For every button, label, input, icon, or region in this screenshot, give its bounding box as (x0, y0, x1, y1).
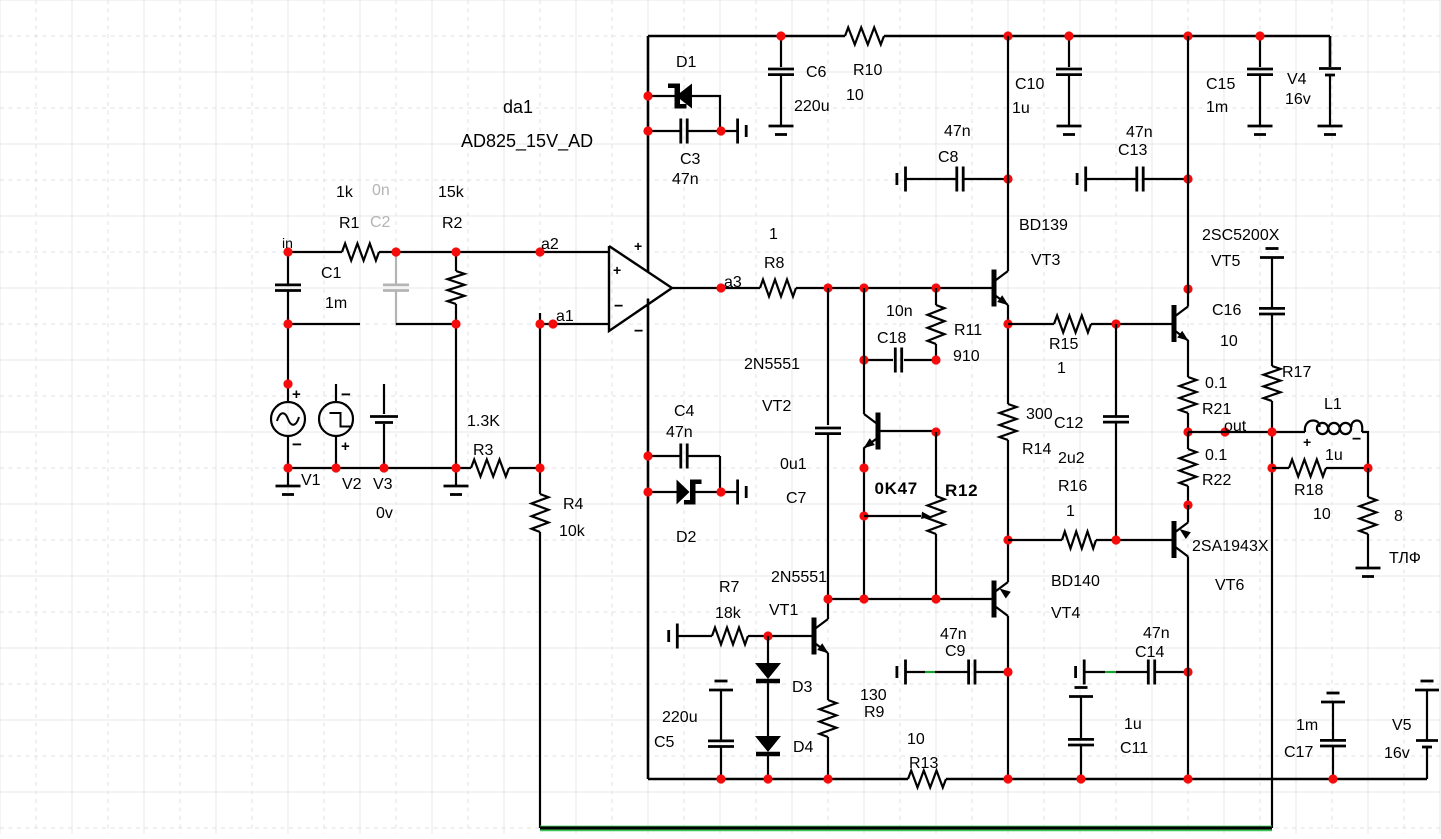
svg-text:0K47: 0K47 (875, 479, 918, 498)
wire (878, 430, 936, 432)
resistor R21 (1180, 375, 1232, 418)
svg-text:D1: D1 (676, 54, 697, 71)
node (1183, 774, 1192, 783)
node (1267, 427, 1276, 472)
node (391, 247, 400, 256)
svg-text:R8: R8 (764, 255, 785, 272)
svg-text:BD139: BD139 (1019, 217, 1068, 234)
node (643, 451, 725, 496)
resistor R load 8ohm (1360, 468, 1421, 568)
wire (863, 288, 865, 414)
svg-text:47n: 47n (666, 424, 693, 441)
svg-text:0u1: 0u1 (780, 456, 807, 473)
capacitor C18 (864, 303, 936, 373)
svg-text:V5: V5 (1392, 717, 1412, 734)
wire a2 (379, 251, 609, 253)
svg-text:da1: da1 (503, 97, 533, 117)
node (1111, 535, 1120, 544)
svg-text:R7: R7 (719, 579, 740, 596)
svg-text:R22: R22 (1202, 472, 1231, 489)
svg-text:C9: C9 (945, 643, 966, 660)
node (1111, 319, 1120, 328)
node (1183, 284, 1192, 293)
capacitor C11 (1068, 688, 1148, 780)
wire (1329, 36, 1332, 67)
svg-text:1m: 1m (1296, 717, 1318, 734)
diode D3 (755, 636, 813, 736)
source V1 (271, 384, 321, 489)
svg-text:2SA1943X: 2SA1943X (1192, 538, 1269, 555)
svg-text:R21: R21 (1202, 401, 1231, 418)
wire a1 vertical (539, 324, 541, 468)
svg-text:15k: 15k (438, 184, 465, 201)
node (1003, 174, 1192, 183)
node (823, 594, 940, 603)
svg-text:10: 10 (907, 731, 925, 748)
wire (1007, 564, 1009, 582)
battery V4 (1285, 69, 1341, 127)
svg-text:−: − (1352, 431, 1361, 448)
svg-text:a1: a1 (556, 308, 574, 325)
svg-text:2u2: 2u2 (1058, 450, 1085, 467)
svg-text:1m: 1m (325, 295, 347, 312)
diode D2 (648, 480, 702, 547)
resistor R11 (928, 288, 983, 365)
ground (1057, 126, 1082, 135)
svg-text:1u: 1u (1325, 447, 1343, 464)
node (1003, 774, 1085, 783)
op-amp da1 AD825 (461, 97, 672, 340)
svg-text:+: + (613, 262, 621, 278)
svg-text:47n: 47n (1143, 625, 1170, 642)
svg-text:−: − (292, 435, 302, 454)
svg-text:1u: 1u (1124, 716, 1142, 733)
node out (1183, 418, 1246, 437)
wire (1007, 305, 1009, 404)
svg-text:2N5551: 2N5551 (771, 569, 827, 586)
source V2 (319, 384, 362, 493)
svg-text:ТЛФ: ТЛФ (1389, 550, 1421, 567)
wire V+ rail top right (884, 35, 1330, 38)
ground (1318, 126, 1343, 135)
battery V5 (1384, 681, 1439, 779)
wire (396, 323, 456, 325)
svg-text:D3: D3 (792, 679, 813, 696)
resistor R3 (467, 413, 509, 477)
wire (1271, 401, 1273, 828)
svg-text:10k: 10k (559, 523, 586, 540)
wire a3 (672, 287, 760, 289)
svg-text:18k: 18k (715, 605, 742, 622)
wire (719, 456, 721, 492)
svg-text:VT2: VT2 (762, 398, 791, 415)
wire (1187, 432, 1189, 449)
resistor R14 (1000, 404, 1053, 458)
svg-text:C11: C11 (1120, 740, 1148, 757)
svg-text:0.1: 0.1 (1205, 375, 1227, 392)
potentiometer R12 (864, 479, 978, 599)
wire out (1188, 431, 1305, 433)
capacitor C13 (1077, 124, 1188, 192)
capacitor C8 (897, 123, 1008, 192)
capacitor C2 (disabled) (370, 182, 409, 325)
node (1003, 319, 1012, 328)
wire (1096, 539, 1173, 541)
svg-text:C18: C18 (877, 330, 906, 347)
wire (935, 432, 937, 496)
svg-text:BD140: BD140 (1051, 573, 1100, 590)
svg-text:130: 130 (860, 687, 887, 704)
transistor VT5 2SC5200X (1174, 227, 1280, 342)
capacitor C16 (1212, 258, 1285, 367)
svg-text:8: 8 (1394, 508, 1403, 525)
svg-text:47n: 47n (944, 123, 971, 140)
svg-text:R2: R2 (442, 215, 463, 232)
wire (1008, 323, 1054, 325)
wire (1187, 271, 1189, 307)
wire (827, 599, 829, 619)
svg-text:V1: V1 (301, 472, 321, 489)
battery terminal (669, 624, 678, 649)
svg-text:+: + (292, 386, 301, 403)
resistor R4 (532, 468, 586, 828)
svg-text:R11: R11 (954, 322, 982, 339)
wire (1187, 36, 1189, 271)
node (643, 91, 725, 135)
ground (1248, 126, 1273, 135)
resistor R15 (1049, 316, 1091, 378)
svg-text:V4: V4 (1287, 71, 1307, 88)
svg-text:1u: 1u (1012, 100, 1030, 117)
wire (455, 324, 457, 468)
wire left rail V- pin stub (647, 299, 650, 780)
node (931, 427, 940, 436)
resistor R9 (820, 687, 887, 779)
wire green net (540, 825, 1272, 831)
svg-text:1: 1 (769, 226, 778, 243)
wire (696, 491, 722, 493)
node (283, 379, 292, 388)
capacitor C17 (1284, 693, 1346, 779)
capacitor C7 (780, 288, 841, 599)
wire (828, 598, 993, 600)
wire (796, 287, 993, 289)
svg-text:VT6: VT6 (1215, 577, 1244, 594)
resistor R13 (907, 731, 946, 788)
svg-text:VT3: VT3 (1031, 252, 1060, 269)
svg-text:10: 10 (1313, 506, 1331, 523)
svg-text:C2: C2 (370, 214, 391, 231)
svg-text:+: + (634, 238, 642, 254)
battery terminal (721, 119, 746, 144)
svg-text:C5: C5 (654, 734, 675, 751)
resistor R7 (677, 579, 768, 645)
resistor R8 (760, 226, 796, 297)
battery terminal (1260, 249, 1284, 258)
svg-text:R12: R12 (945, 481, 978, 500)
svg-text:C12: C12 (1054, 415, 1083, 432)
svg-text:1m: 1m (1206, 99, 1228, 116)
node (1363, 463, 1372, 472)
svg-text:1.3K: 1.3K (467, 413, 500, 430)
node (1183, 500, 1192, 509)
svg-text:R1: R1 (339, 215, 360, 232)
resistor R2 (438, 184, 465, 324)
svg-text:R10: R10 (853, 62, 882, 79)
svg-text:R9: R9 (864, 704, 885, 721)
wire (863, 448, 865, 600)
svg-text:VT5: VT5 (1211, 253, 1240, 270)
svg-text:16v: 16v (1285, 91, 1311, 108)
node (283, 463, 544, 472)
svg-text:+: + (341, 438, 350, 455)
wire left rail upper (647, 36, 650, 272)
node a2 (535, 236, 558, 257)
wire (827, 653, 829, 700)
resistor R16 (1058, 478, 1096, 549)
svg-text:−: − (341, 385, 351, 404)
svg-text:C3: C3 (680, 151, 701, 168)
svg-text:R4: R4 (563, 496, 584, 513)
transistor VT6 2SA1943X (1174, 521, 1269, 594)
wire (692, 96, 720, 131)
wire (509, 467, 540, 469)
ground (444, 468, 469, 495)
wire (1091, 323, 1173, 325)
node (1003, 535, 1012, 544)
resistor R22 (1180, 447, 1232, 489)
svg-text:R17: R17 (1282, 364, 1311, 381)
capacitor C5 (654, 681, 734, 779)
wire (1187, 486, 1189, 506)
svg-text:VT4: VT4 (1051, 605, 1080, 622)
svg-text:a3: a3 (724, 274, 742, 291)
svg-text:47n: 47n (1126, 124, 1153, 141)
svg-text:0.1: 0.1 (1205, 447, 1227, 464)
svg-text:C4: C4 (674, 403, 695, 420)
wire bottom rail right (946, 778, 1427, 781)
svg-text:C6: C6 (806, 64, 827, 81)
svg-text:0n: 0n (372, 182, 390, 199)
wire a1 stub (539, 313, 541, 324)
capacitor C6 (768, 36, 830, 126)
ground (1356, 568, 1381, 577)
node (451, 319, 460, 328)
svg-text:220u: 220u (662, 709, 698, 726)
battery terminal (721, 480, 746, 505)
node (859, 355, 940, 364)
wire (1187, 505, 1189, 523)
svg-text:R15: R15 (1049, 336, 1078, 353)
node (716, 774, 832, 783)
resistor R10 (845, 28, 884, 105)
node (823, 283, 940, 292)
node (283, 319, 292, 328)
svg-text:D2: D2 (676, 529, 697, 546)
transistor VT4 BD140 (994, 573, 1100, 622)
resistor R17 (1264, 364, 1312, 401)
wire (1007, 440, 1009, 564)
node (1183, 667, 1192, 676)
svg-text:V2: V2 (342, 476, 362, 493)
svg-text:AD825_15V_AD: AD825_15V_AD (461, 131, 593, 152)
svg-text:2SC5200X: 2SC5200X (1202, 227, 1280, 244)
node (451, 247, 460, 256)
capacitor C14 (1076, 625, 1188, 685)
svg-text:V3: V3 (373, 476, 393, 493)
diode D4 (755, 736, 814, 779)
wire a1 (540, 323, 609, 325)
ground (276, 468, 301, 495)
wire (1007, 36, 1009, 271)
svg-text:C15: C15 (1206, 76, 1235, 93)
wire (1362, 432, 1368, 468)
svg-text:910: 910 (953, 348, 980, 365)
wire net in (288, 251, 342, 253)
svg-text:47n: 47n (940, 626, 967, 643)
svg-text:R13: R13 (909, 755, 938, 772)
wire (288, 323, 360, 325)
wire ground bus (288, 467, 471, 469)
svg-text:10: 10 (1220, 333, 1238, 350)
svg-text:C14: C14 (1135, 644, 1164, 661)
svg-text:47n: 47n (672, 171, 699, 188)
svg-text:C1: C1 (321, 265, 342, 282)
wire V+ rail top (648, 35, 845, 38)
svg-text:16v: 16v (1384, 745, 1410, 762)
node (859, 463, 868, 520)
svg-text:R14: R14 (1022, 441, 1051, 458)
svg-text:R16: R16 (1058, 478, 1087, 495)
ground (769, 126, 794, 135)
node a1 (535, 308, 573, 329)
svg-text:C17: C17 (1284, 744, 1313, 761)
node a3 (716, 274, 741, 293)
svg-text:C7: C7 (786, 490, 807, 507)
capacitor C4 (649, 403, 720, 469)
svg-text:300: 300 (1026, 406, 1053, 423)
svg-text:+: + (1303, 434, 1311, 450)
node (1003, 667, 1012, 676)
capacitor C3 (648, 119, 721, 189)
svg-text:D4: D4 (793, 739, 814, 756)
node (1328, 774, 1337, 783)
node (776, 31, 785, 40)
svg-text:1: 1 (1066, 503, 1075, 520)
capacitor C15 (1206, 36, 1273, 126)
svg-text:a2: a2 (541, 236, 559, 253)
wire (1187, 557, 1189, 780)
svg-text:220u: 220u (794, 98, 830, 115)
svg-text:in: in (282, 235, 293, 251)
svg-text:−: − (634, 323, 643, 340)
transistor VT3 BD139 (994, 217, 1068, 307)
svg-text:R18: R18 (1294, 482, 1323, 499)
inductor L1 (1303, 396, 1362, 464)
svg-text:−: − (614, 298, 623, 315)
svg-text:L1: L1 (1324, 396, 1342, 413)
capacitor C9 (897, 626, 1008, 685)
diode D1 (648, 54, 697, 109)
svg-text:C16: C16 (1212, 302, 1241, 319)
transistor VT1 2N5551 (769, 569, 829, 655)
svg-text:C8: C8 (938, 149, 959, 166)
battery V3 (370, 384, 398, 522)
resistor R18 (1272, 460, 1368, 524)
svg-text:2N5551: 2N5551 (744, 356, 800, 373)
wire (1187, 413, 1189, 432)
svg-text:1k: 1k (336, 184, 354, 201)
wire (1187, 340, 1189, 377)
node (763, 631, 772, 640)
wire (1007, 616, 1009, 779)
wire (1008, 539, 1062, 541)
svg-text:C10: C10 (1015, 76, 1044, 93)
svg-text:10n: 10n (886, 303, 913, 320)
wire (287, 324, 289, 384)
wire bottom rail (648, 778, 908, 781)
resistor R1 (336, 184, 379, 261)
transistor VT2 2N5551 (744, 356, 878, 450)
wire (768, 635, 814, 637)
capacitor C1 (275, 252, 347, 324)
svg-text:VT1: VT1 (769, 602, 798, 619)
capacitor C10 (1012, 36, 1082, 126)
node (1003, 31, 1264, 40)
capacitor C12 (1054, 324, 1129, 540)
svg-text:0v: 0v (376, 505, 393, 522)
svg-text:1: 1 (1057, 360, 1066, 377)
node in (282, 235, 293, 257)
svg-text:R3: R3 (473, 442, 494, 459)
svg-text:C13: C13 (1118, 142, 1147, 159)
svg-text:10: 10 (846, 87, 864, 104)
